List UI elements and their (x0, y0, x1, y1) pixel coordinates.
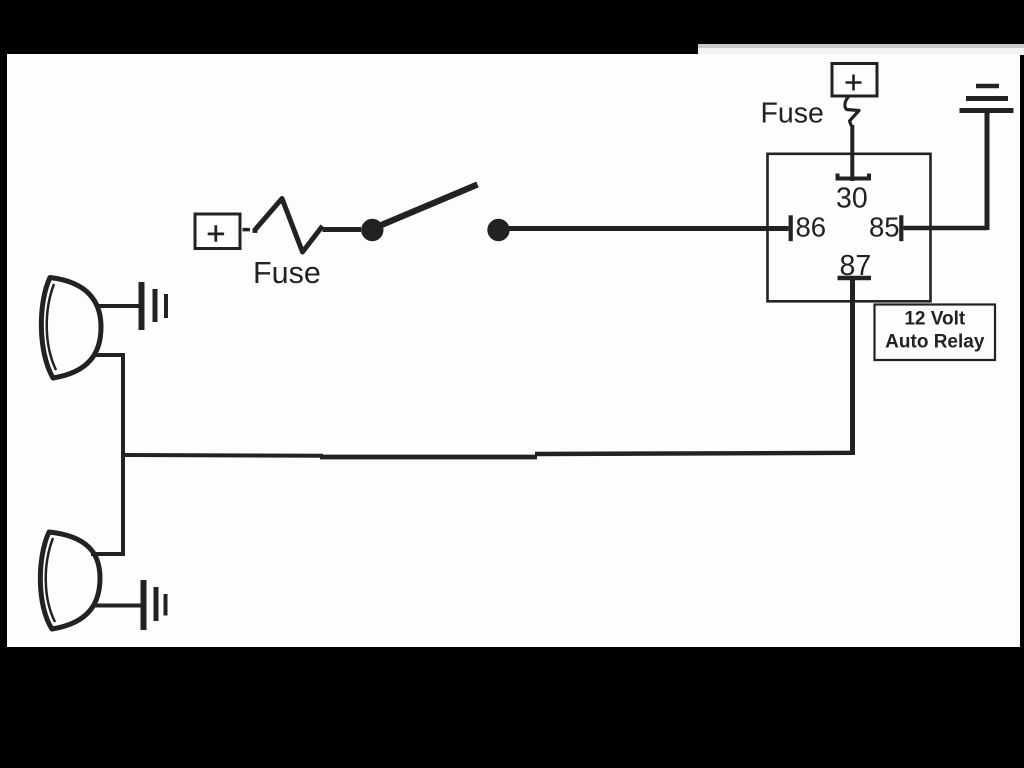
svg-text:30: 30 (836, 183, 868, 215)
fog lamp L2 reflector inner line (46, 538, 55, 622)
battery B2 box (832, 64, 877, 97)
ground G2 bar2 (154, 587, 159, 621)
wire main feed to lamps (middle segment) (320, 455, 537, 460)
svg-text:Fuse: Fuse (761, 98, 824, 130)
switch SW1 pole dot (361, 219, 383, 241)
svg-text:Fuse: Fuse (253, 256, 321, 290)
svg-text:86: 86 (796, 212, 827, 243)
ground G3 line short (976, 84, 999, 89)
svg-text:85: 85 (869, 212, 900, 243)
wire main feed to lamps (right segment) (535, 453, 855, 454)
wire battery to fuse dot (253, 230, 258, 233)
white diagram background (7, 54, 1020, 647)
wire L1 lower terminal (94, 355, 123, 454)
battery B1 box (195, 214, 240, 249)
fuse F1 zigzag (254, 199, 323, 253)
relay label box (875, 305, 996, 361)
wire 85 to ground stem (904, 226, 988, 231)
ground G3 stem (985, 111, 990, 230)
relay pin 85 tick (899, 215, 903, 241)
relay K1 box (768, 154, 931, 301)
svg-text:12 Volt: 12 Volt (904, 309, 966, 330)
relay pin 86 tick (789, 215, 793, 241)
ground G2 bar3 (164, 594, 168, 616)
switch SW1 arm (379, 185, 478, 227)
fog lamp L1 outer bowl (41, 278, 101, 379)
ground G3 line middle (966, 96, 1008, 101)
wire switch to relay 86 (505, 226, 789, 231)
battery B1 plus sign (208, 225, 224, 241)
ground G2 bar1 (141, 580, 147, 630)
ground G1 bar1 (139, 282, 145, 330)
wire L2 upper terminal (91, 552, 125, 556)
wire L1 to ground (96, 304, 139, 308)
wire L2 to ground (93, 604, 141, 608)
fog lamp L1 reflector inner line (47, 284, 56, 370)
ground G1 bar3 (164, 294, 168, 318)
wire battery to fuse dash (243, 228, 251, 232)
wire 87 down (850, 280, 855, 454)
battery B2 plus sign (846, 75, 862, 91)
ground G1 bar2 (153, 289, 158, 322)
wire main feed to lamps (left segment) (121, 453, 323, 458)
svg-text:Auto Relay: Auto Relay (885, 332, 985, 353)
wire fuse to switch (323, 227, 362, 232)
wire vertical lamp bus (121, 454, 125, 554)
wire fuse to pin 30 (850, 125, 854, 181)
svg-text:87: 87 (840, 250, 872, 282)
fog lamp L2 outer bowl (40, 532, 100, 629)
relay pin 87 underline (838, 276, 872, 281)
fuse F2 zigzag (845, 97, 859, 127)
switch SW1 throw dot (487, 219, 509, 241)
relay pin 30 bar (838, 174, 870, 179)
ground G3 line long (960, 108, 1014, 113)
top-right gray strip (698, 44, 1024, 48)
